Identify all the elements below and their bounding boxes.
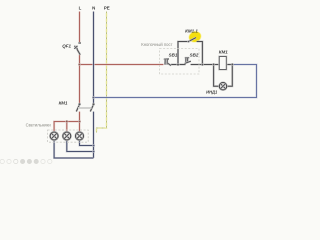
svg-text:PE: PE (104, 6, 110, 11)
svg-text:SB1: SB1 (169, 53, 178, 58)
svg-text:ИНД1: ИНД1 (206, 89, 218, 94)
svg-text:N: N (92, 6, 95, 11)
svg-text:КМ1.1: КМ1.1 (185, 29, 198, 34)
svg-text:Светильники: Светильники (26, 122, 52, 127)
svg-text:КМ1: КМ1 (59, 101, 68, 106)
svg-text:L: L (79, 6, 82, 11)
svg-text:КМ1: КМ1 (219, 49, 229, 54)
svg-text:QF1: QF1 (62, 43, 71, 48)
svg-text:SB2: SB2 (190, 53, 199, 58)
svg-text:Кнопочный пост: Кнопочный пост (141, 42, 172, 47)
